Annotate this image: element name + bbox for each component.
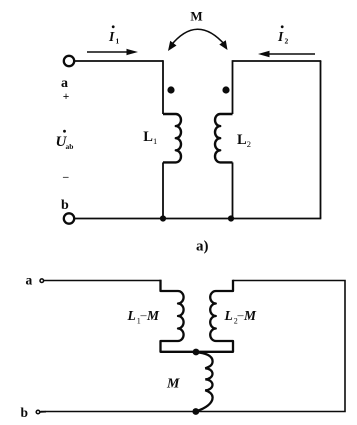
svg-text:2: 2 — [285, 37, 289, 46]
svg-text:1: 1 — [153, 136, 157, 146]
svg-text:M: M — [166, 377, 180, 392]
arrow I2 — [258, 51, 315, 57]
junction node bottom of M — [192, 408, 199, 415]
svg-text:1: 1 — [116, 37, 120, 46]
svg-text:b: b — [21, 405, 29, 420]
svg-text:I: I — [277, 29, 284, 44]
svg-text:a: a — [61, 76, 68, 91]
wire left branch lower vertical — [162, 162, 164, 218]
terminal b small circle — [36, 410, 40, 414]
label L1 — [143, 129, 157, 146]
svg-text:M: M — [243, 308, 257, 323]
wire bottom of circuit a — [75, 218, 322, 220]
svg-text:L: L — [224, 308, 233, 323]
svg-text:–: – — [62, 171, 69, 183]
label I2 (current) — [277, 25, 289, 45]
svg-text:a: a — [26, 273, 33, 288]
label Uab (voltage) — [56, 130, 74, 151]
wire top-right loop of b — [41, 281, 346, 412]
inductor L2 — [215, 114, 233, 162]
arrow I1 — [87, 49, 138, 55]
wire right branch lower vertical — [232, 162, 234, 218]
terminal b (open circle) — [64, 213, 74, 223]
inductor L2-M branch — [196, 280, 233, 352]
wire top-left from terminal a to node — [75, 60, 164, 62]
wire from a to left branch — [44, 280, 161, 282]
wire right side vertical — [320, 61, 322, 219]
junction node at L2 bottom — [228, 215, 234, 221]
wire right branch upper vertical — [232, 60, 234, 114]
label I1 (current) — [108, 25, 120, 45]
svg-text:a): a) — [196, 239, 209, 255]
inductor L1 — [163, 114, 181, 162]
terminal a (open circle) — [64, 56, 74, 66]
junction node at L1 bottom — [160, 215, 166, 221]
svg-text:+: + — [63, 91, 70, 103]
svg-text:I: I — [108, 29, 115, 44]
svg-text:L: L — [237, 132, 247, 148]
svg-text:2: 2 — [247, 139, 251, 149]
label L2 — [237, 132, 251, 149]
inductor M (common branch) — [196, 352, 213, 411]
terminal a small circle — [40, 279, 44, 283]
mutual coupling arc with arrowheads — [168, 29, 228, 51]
svg-text:L: L — [127, 308, 136, 323]
label L1-M — [127, 308, 161, 326]
polarity dot L1 — [167, 86, 174, 93]
wire stub from terminal b — [40, 411, 46, 413]
svg-text:ab: ab — [66, 142, 74, 151]
wire top-right — [233, 60, 322, 62]
svg-text:b: b — [61, 198, 69, 213]
wire left branch upper vertical — [162, 60, 164, 114]
svg-text:M: M — [190, 9, 202, 24]
polarity dot L2 — [222, 86, 229, 93]
label L2-M — [224, 308, 258, 326]
junction node top of M — [193, 349, 200, 356]
svg-text:M: M — [146, 308, 160, 323]
svg-text:L: L — [143, 129, 153, 145]
inductor L1-M branch — [161, 280, 197, 352]
